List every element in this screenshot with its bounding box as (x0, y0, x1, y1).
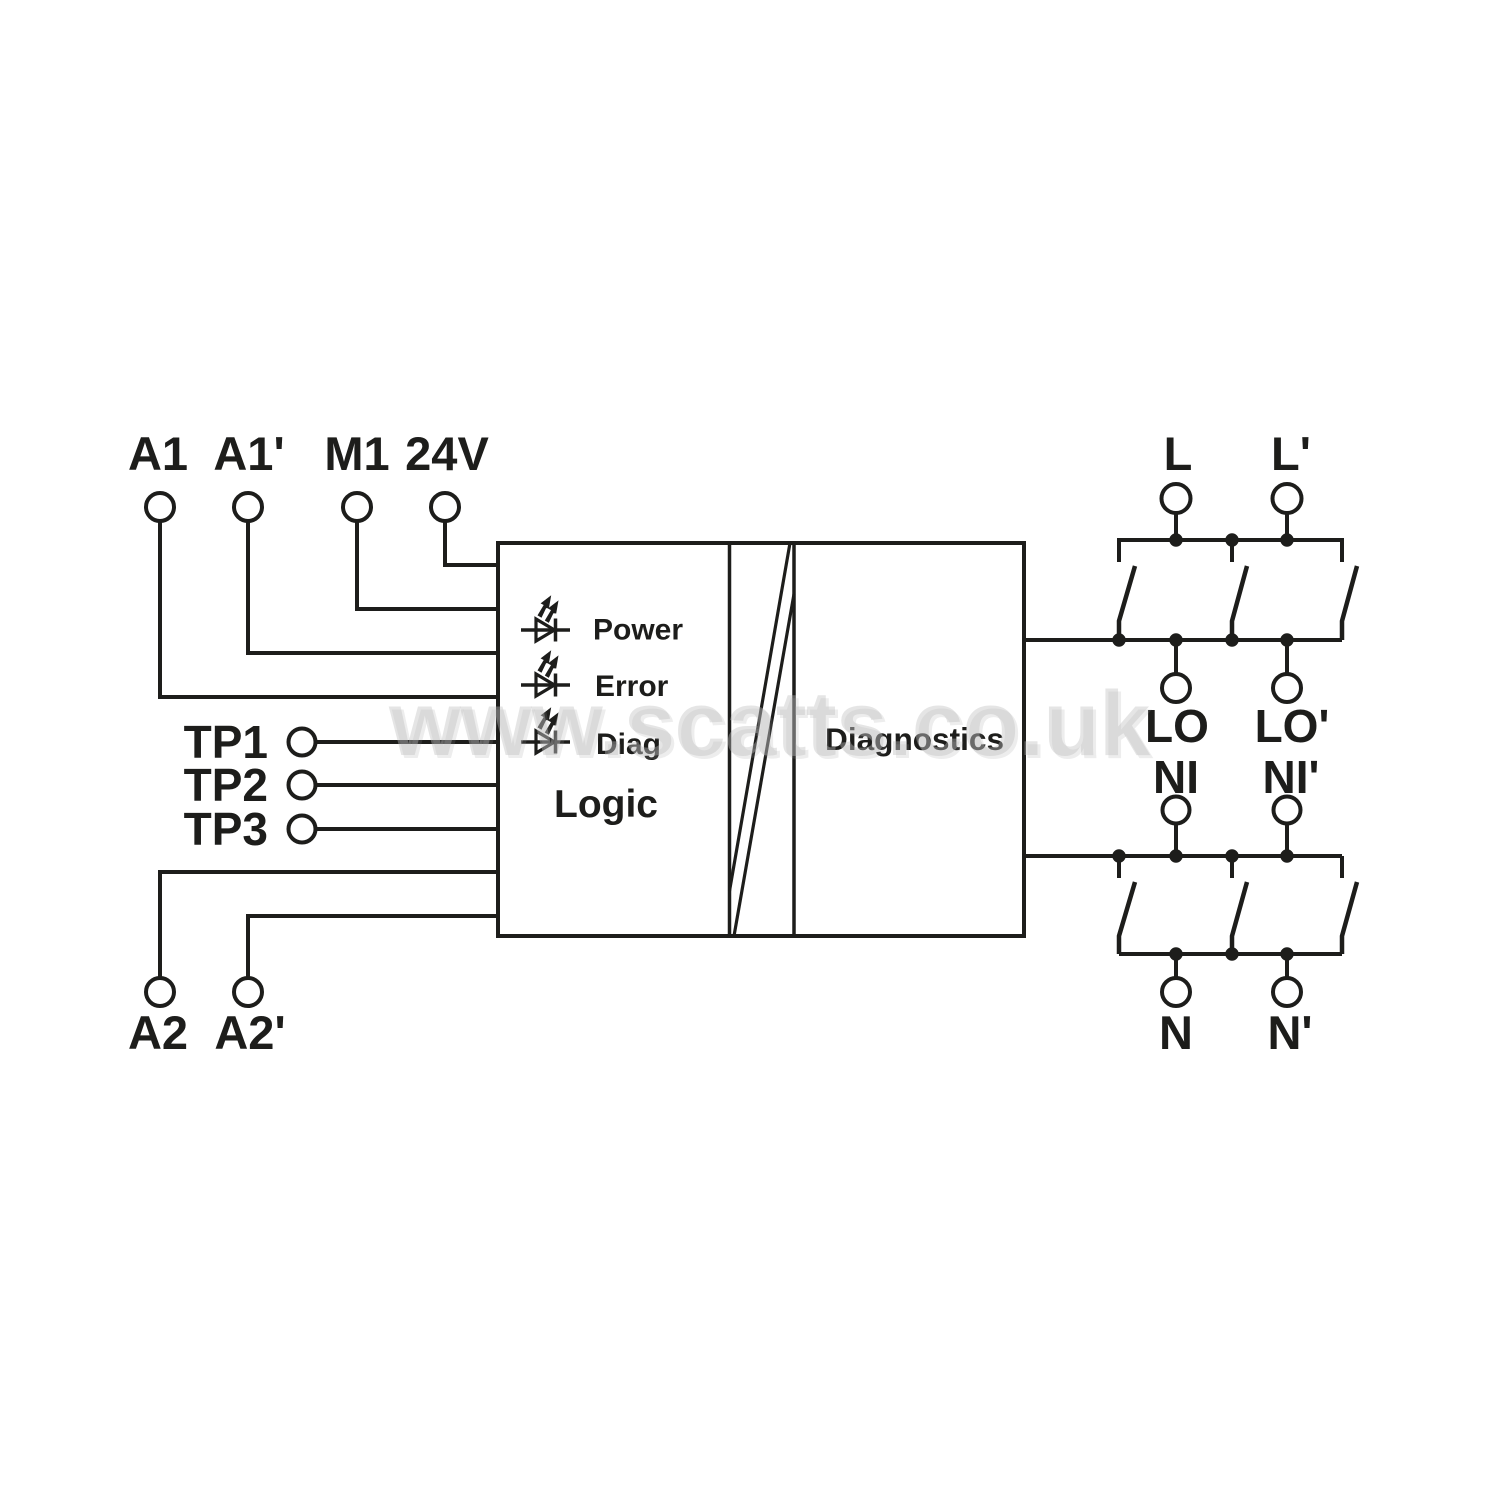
junction L' on top rail (1280, 533, 1293, 546)
isolation barrier diagonal 2 (734, 594, 794, 936)
isolation barrier right line (792, 543, 796, 936)
terminal L' (1273, 484, 1302, 513)
svg-text:A1': A1' (213, 427, 284, 480)
junction mid top rail (1225, 533, 1238, 546)
stub contact K5 fixed (1230, 856, 1234, 878)
terminal N' (1273, 978, 1301, 1006)
junction LO on rail (1169, 633, 1182, 646)
terminal A1' (234, 493, 262, 521)
svg-text:A1: A1 (128, 427, 188, 480)
terminal 24V (431, 493, 459, 521)
junction LO' on rail (1280, 633, 1293, 646)
terminal TP1 (289, 729, 316, 756)
junction K2 on LO rail (1225, 633, 1238, 646)
wire N stub (1174, 954, 1178, 978)
wire NI stub (1174, 824, 1178, 856)
wire A1 to logic block (160, 521, 498, 697)
svg-text:N: N (1159, 1006, 1193, 1059)
LED Error symbol (521, 650, 570, 696)
svg-text:TP3: TP3 (184, 803, 268, 855)
wire TP1 to logic block (316, 740, 499, 744)
terminal TP2 (289, 772, 316, 799)
terminal A1 (146, 493, 174, 521)
junction NI on rail (1169, 849, 1182, 862)
wire TP2 to logic block (316, 783, 499, 787)
terminal M1 (343, 493, 371, 521)
svg-text:Power: Power (593, 614, 683, 647)
svg-text:24V: 24V (405, 427, 489, 480)
wire NI' stub (1285, 824, 1289, 856)
terminal NI' (1274, 797, 1301, 824)
relay contact K5 blade (1232, 882, 1247, 954)
wire 24V to logic block (445, 521, 498, 565)
svg-text:LO: LO (1145, 700, 1209, 752)
terminal A2' (234, 978, 262, 1006)
wire top contact rail (1119, 540, 1342, 562)
svg-text:A2: A2 (128, 1006, 188, 1059)
wire N rail (1119, 952, 1342, 956)
wire L down to contact rail (1174, 513, 1178, 540)
svg-text:L: L (1164, 427, 1193, 480)
wire A1' to logic block (248, 521, 498, 653)
terminal L (1162, 484, 1191, 513)
junction K4 on NI rail (1112, 849, 1125, 862)
isolation barrier diagonal 1 (730, 543, 791, 891)
wire TP3 to logic block (316, 827, 499, 831)
wire N' stub (1285, 954, 1289, 978)
stub contact K6 fixed (1340, 856, 1344, 878)
svg-text:Logic: Logic (554, 783, 658, 826)
relay contact K1 blade (1119, 566, 1135, 640)
svg-text:L': L' (1271, 427, 1311, 480)
relay contact K4 blade (1119, 882, 1135, 954)
relay contact K6 blade (1342, 882, 1357, 954)
LED Power symbol (521, 595, 570, 641)
isolation barrier left line (728, 543, 732, 936)
svg-text:LO': LO' (1255, 700, 1330, 752)
terminal NI (1163, 797, 1190, 824)
wire LO stub (1174, 640, 1178, 674)
logic block U1 outline (498, 543, 1024, 936)
svg-text:N': N' (1267, 1006, 1312, 1059)
relay contact K2 blade (1232, 566, 1247, 640)
terminal A2 (146, 978, 174, 1006)
junction N' on rail (1280, 947, 1293, 960)
svg-text:www.scatts.co.uk: www.scatts.co.uk (388, 673, 1151, 775)
stub contact K4 fixed (1117, 856, 1121, 878)
svg-text:M1: M1 (324, 427, 389, 480)
junction N on rail (1169, 947, 1182, 960)
junction NI' on rail (1280, 849, 1293, 862)
svg-text:A2': A2' (214, 1006, 285, 1059)
terminal TP3 (289, 816, 316, 843)
wire M1 to logic block (357, 521, 498, 609)
terminal N (1162, 978, 1190, 1006)
relay contact K3 blade (1342, 566, 1357, 640)
stub middle contact K2 fixed (1230, 540, 1234, 562)
wire A2 to logic block (160, 872, 498, 978)
wire NI rail from block (1024, 854, 1342, 858)
junction L on top rail (1169, 533, 1182, 546)
LED Diag symbol (521, 707, 570, 753)
wire A2' to logic block (248, 916, 498, 978)
junction K1 on LO rail (1112, 633, 1125, 646)
wire LO' stub (1285, 640, 1289, 674)
junction K5 on NI rail (1225, 849, 1238, 862)
junction K5 bottom (1225, 947, 1238, 960)
terminal LO' (1273, 674, 1301, 702)
wire L' down to contact rail (1285, 513, 1289, 540)
wire LO rail from block (1024, 638, 1342, 642)
terminal LO (1162, 674, 1190, 702)
